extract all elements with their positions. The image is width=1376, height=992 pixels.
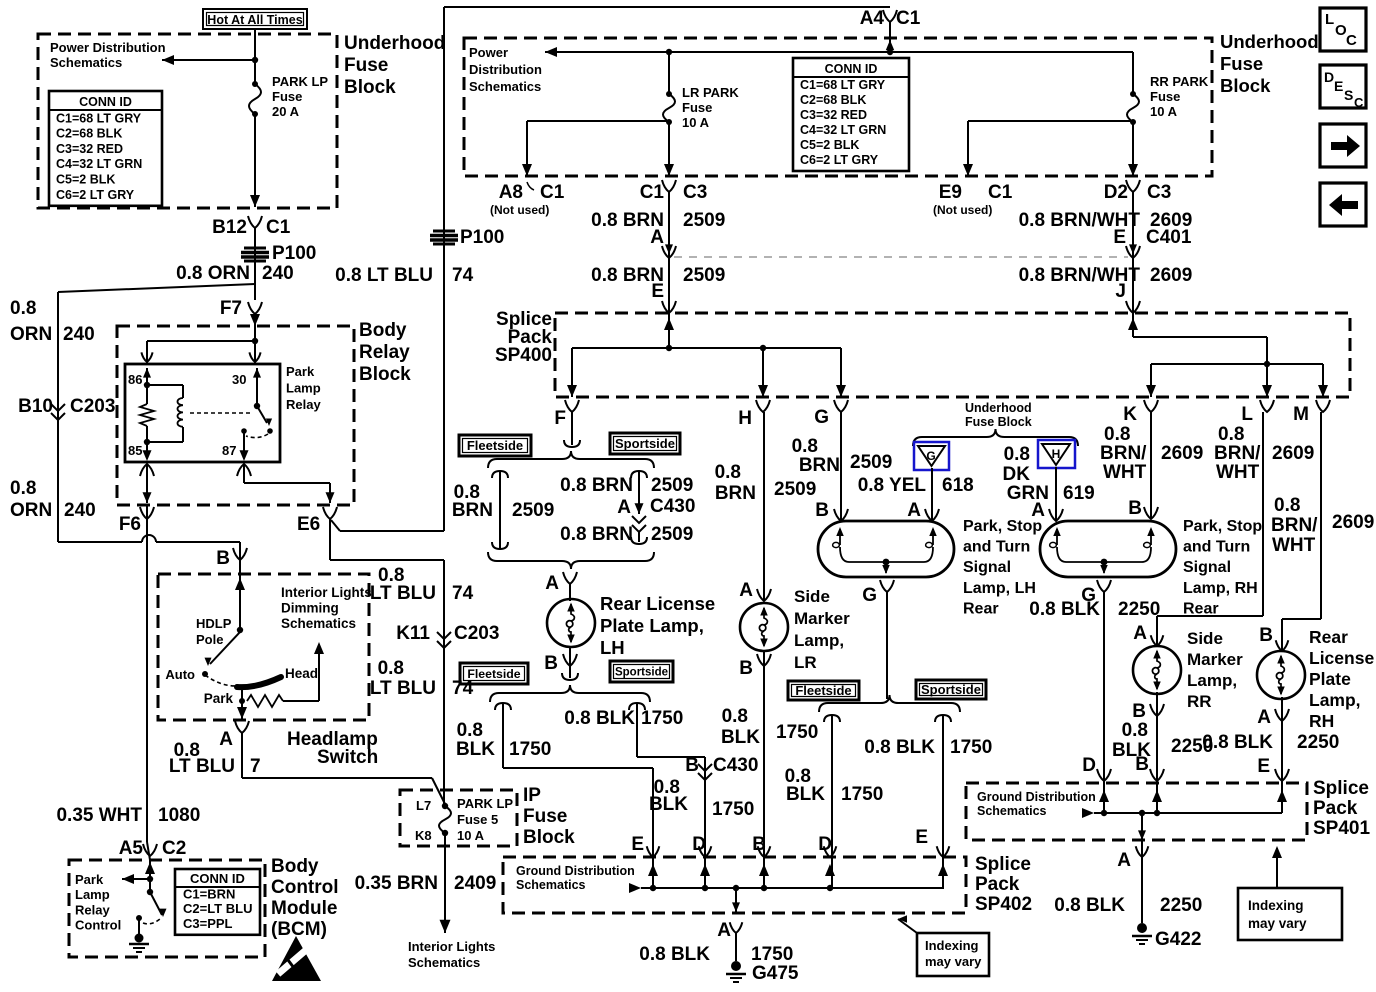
- svg-text:B: B: [685, 755, 699, 776]
- svg-text:DK: DK: [1003, 464, 1031, 485]
- svg-text:G422: G422: [1155, 929, 1201, 950]
- svg-text:86: 86: [128, 372, 142, 387]
- svg-text:J: J: [1115, 281, 1126, 302]
- svg-text:0.8: 0.8: [1274, 495, 1300, 516]
- svg-text:D: D: [1324, 69, 1334, 85]
- svg-text:SP402: SP402: [975, 894, 1032, 915]
- svg-text:ORN: ORN: [10, 324, 52, 345]
- svg-text:BRN/: BRN/: [1271, 515, 1318, 536]
- svg-text:B: B: [1135, 754, 1149, 775]
- svg-text:GRN: GRN: [1007, 483, 1049, 504]
- svg-text:CONN ID: CONN ID: [79, 95, 132, 109]
- svg-text:HDLP: HDLP: [196, 616, 232, 631]
- svg-text:Body: Body: [271, 856, 319, 877]
- svg-text:C1: C1: [266, 217, 291, 238]
- svg-text:Sportside: Sportside: [615, 667, 668, 679]
- svg-text:F6: F6: [119, 514, 141, 535]
- svg-text:E: E: [1334, 78, 1343, 94]
- svg-text:and Turn: and Turn: [1183, 539, 1250, 556]
- svg-text:619: 619: [1063, 483, 1095, 504]
- svg-text:Fuse: Fuse: [344, 55, 388, 76]
- svg-text:0.8: 0.8: [1004, 444, 1030, 465]
- svg-text:L7: L7: [416, 798, 431, 813]
- svg-text:Plate Lamp,: Plate Lamp,: [600, 615, 704, 636]
- svg-text:Rear: Rear: [963, 600, 999, 617]
- svg-text:G475: G475: [752, 963, 799, 984]
- svg-text:Fuse: Fuse: [1150, 89, 1180, 104]
- svg-text:2509: 2509: [651, 524, 693, 545]
- svg-text:Lamp, LH: Lamp, LH: [963, 580, 1036, 597]
- svg-text:C3=PPL: C3=PPL: [183, 916, 233, 931]
- svg-text:0.8 BLK: 0.8 BLK: [1202, 732, 1273, 753]
- svg-text:Fuse: Fuse: [272, 89, 302, 104]
- svg-text:Power: Power: [469, 45, 508, 60]
- svg-text:BRN: BRN: [799, 455, 840, 476]
- svg-text:IP: IP: [523, 785, 541, 806]
- svg-text:Park, Stop: Park, Stop: [1183, 518, 1262, 535]
- svg-text:Plate: Plate: [1309, 669, 1351, 689]
- svg-text:0.8: 0.8: [1104, 424, 1130, 445]
- svg-text:Splice: Splice: [975, 854, 1031, 875]
- svg-text:C430: C430: [713, 755, 758, 776]
- svg-text:A: A: [1257, 707, 1271, 728]
- svg-text:Lamp: Lamp: [286, 381, 321, 396]
- svg-text:0.8: 0.8: [715, 462, 741, 483]
- svg-text:SP400: SP400: [495, 345, 552, 366]
- svg-text:0.8: 0.8: [10, 478, 36, 499]
- svg-text:Sportside: Sportside: [615, 436, 675, 451]
- svg-text:Block: Block: [359, 364, 411, 385]
- svg-text:H: H: [1052, 447, 1061, 461]
- svg-text:0.8: 0.8: [722, 706, 748, 727]
- svg-text:Rear: Rear: [1183, 600, 1219, 617]
- svg-text:K11: K11: [396, 623, 430, 644]
- svg-text:C6=2 LT GRY: C6=2 LT GRY: [56, 188, 135, 202]
- svg-text:Side: Side: [794, 587, 830, 606]
- svg-text:Ground Distribution: Ground Distribution: [516, 864, 635, 878]
- svg-text:0.8 BRN: 0.8 BRN: [560, 524, 633, 545]
- svg-text:LT BLU: LT BLU: [169, 756, 235, 777]
- svg-text:A: A: [1117, 850, 1131, 871]
- svg-text:Indexing: Indexing: [1248, 898, 1304, 913]
- svg-text:C1=BRN: C1=BRN: [183, 887, 235, 902]
- svg-text:Marker: Marker: [1187, 650, 1243, 669]
- svg-text:B: B: [216, 548, 230, 569]
- svg-text:74: 74: [452, 678, 474, 699]
- svg-text:618: 618: [942, 475, 974, 496]
- svg-text:0.8 BRN: 0.8 BRN: [560, 475, 633, 496]
- svg-text:RR PARK: RR PARK: [1150, 74, 1209, 89]
- svg-text:0.8: 0.8: [792, 436, 818, 457]
- svg-text:C1: C1: [540, 182, 565, 203]
- svg-text:10 A: 10 A: [457, 828, 485, 843]
- svg-text:C: C: [1354, 95, 1364, 110]
- svg-text:C1: C1: [988, 182, 1013, 203]
- svg-text:Fuse Block: Fuse Block: [965, 415, 1032, 429]
- svg-text:C430: C430: [650, 496, 695, 517]
- svg-text:H: H: [738, 408, 752, 429]
- svg-text:2609: 2609: [1272, 443, 1314, 464]
- svg-text:LR PARK: LR PARK: [682, 85, 739, 100]
- svg-text:Fleetside: Fleetside: [467, 667, 520, 681]
- svg-text:0.35 BRN: 0.35 BRN: [355, 873, 438, 894]
- svg-text:10 A: 10 A: [1150, 104, 1178, 119]
- svg-text:2509: 2509: [683, 210, 725, 231]
- svg-text:LT BLU: LT BLU: [370, 678, 436, 699]
- svg-text:K: K: [1123, 404, 1137, 425]
- svg-text:0.8 LT BLU: 0.8 LT BLU: [335, 265, 433, 286]
- svg-text:SP401: SP401: [1313, 818, 1370, 839]
- svg-text:Auto: Auto: [165, 667, 195, 682]
- svg-text:2250: 2250: [1297, 732, 1339, 753]
- svg-text:C6=2 LT GRY: C6=2 LT GRY: [800, 153, 879, 167]
- svg-text:Interior Lights: Interior Lights: [281, 585, 372, 600]
- svg-text:P100: P100: [460, 227, 504, 248]
- svg-text:0.8 BLK: 0.8 BLK: [639, 944, 710, 965]
- svg-text:2609: 2609: [1332, 512, 1374, 533]
- svg-text:Schematics: Schematics: [408, 955, 480, 970]
- svg-text:G: G: [814, 407, 829, 428]
- svg-text:F: F: [554, 408, 566, 429]
- svg-text:L: L: [1325, 11, 1334, 28]
- svg-text:Fuse: Fuse: [682, 100, 712, 115]
- svg-text:0.8 BLK: 0.8 BLK: [1029, 599, 1100, 620]
- svg-text:C1: C1: [640, 182, 665, 203]
- svg-text:2509: 2509: [774, 479, 816, 500]
- svg-text:Hot At All Times: Hot At All Times: [207, 13, 302, 27]
- svg-text:BRN: BRN: [715, 483, 756, 504]
- svg-text:A4: A4: [860, 8, 885, 29]
- svg-text:7: 7: [250, 756, 261, 777]
- svg-text:87: 87: [222, 443, 236, 458]
- svg-text:CONN ID: CONN ID: [825, 62, 878, 76]
- svg-text:Park: Park: [204, 691, 234, 706]
- svg-text:Schematics: Schematics: [516, 878, 586, 892]
- svg-text:Fleetside: Fleetside: [467, 438, 523, 453]
- svg-text:LR: LR: [794, 653, 817, 672]
- svg-text:Pole: Pole: [196, 632, 223, 647]
- svg-text:Sportside: Sportside: [921, 682, 981, 697]
- svg-text:B12: B12: [212, 217, 247, 238]
- svg-text:2250: 2250: [1160, 895, 1202, 916]
- svg-text:C1=68 LT GRY: C1=68 LT GRY: [56, 111, 142, 125]
- svg-text:1080: 1080: [158, 805, 200, 826]
- svg-text:BRN: BRN: [452, 500, 493, 521]
- svg-text:Underhood: Underhood: [1220, 31, 1319, 52]
- svg-text:Head: Head: [285, 666, 318, 681]
- svg-text:C4=32 LT GRN: C4=32 LT GRN: [56, 157, 142, 171]
- svg-text:Block: Block: [523, 827, 575, 848]
- svg-text:Fuse: Fuse: [1220, 53, 1263, 74]
- svg-text:Signal: Signal: [963, 559, 1011, 576]
- svg-text:Rear: Rear: [1309, 627, 1348, 647]
- svg-text:30: 30: [232, 372, 246, 387]
- svg-text:2509: 2509: [651, 475, 693, 496]
- svg-text:may vary: may vary: [925, 954, 982, 969]
- svg-text:B: B: [1259, 625, 1273, 646]
- svg-text:Side: Side: [1187, 629, 1223, 648]
- svg-text:C1: C1: [896, 8, 921, 29]
- svg-text:Lamp,: Lamp,: [1187, 671, 1237, 690]
- svg-text:Control: Control: [271, 877, 339, 898]
- svg-text:Signal: Signal: [1183, 559, 1231, 576]
- svg-text:A: A: [717, 920, 731, 941]
- svg-text:P100: P100: [272, 243, 316, 264]
- svg-text:C401: C401: [1146, 227, 1192, 248]
- svg-text:Block: Block: [344, 77, 396, 98]
- svg-text:Block: Block: [1220, 75, 1271, 96]
- svg-text:M: M: [1293, 404, 1309, 425]
- svg-text:F7: F7: [220, 298, 242, 319]
- svg-text:Module: Module: [271, 898, 338, 919]
- svg-text:E6: E6: [297, 514, 320, 535]
- svg-text:Relay: Relay: [359, 342, 410, 363]
- svg-text:LT BLU: LT BLU: [370, 583, 436, 604]
- svg-text:74: 74: [452, 583, 474, 604]
- svg-text:0.8 BLK: 0.8 BLK: [864, 737, 935, 758]
- svg-text:C3: C3: [683, 182, 707, 203]
- svg-text:0.8 ORN: 0.8 ORN: [176, 263, 250, 284]
- svg-text:C2=68 BLK: C2=68 BLK: [56, 127, 122, 141]
- svg-text:85: 85: [128, 443, 142, 458]
- svg-text:Pack: Pack: [975, 874, 1020, 895]
- svg-text:Lamp,: Lamp,: [1309, 690, 1361, 710]
- svg-text:B: B: [1128, 498, 1142, 519]
- svg-text:Fleetside: Fleetside: [795, 683, 851, 698]
- svg-text:C: C: [1346, 32, 1357, 49]
- svg-text:B10: B10: [18, 396, 53, 417]
- svg-text:C3=32 RED: C3=32 RED: [56, 142, 123, 156]
- svg-text:WHT: WHT: [1216, 462, 1260, 483]
- svg-text:Marker: Marker: [794, 609, 850, 628]
- svg-text:0.8: 0.8: [10, 298, 36, 319]
- svg-text:A5: A5: [119, 838, 144, 859]
- svg-text:Power Distribution: Power Distribution: [50, 40, 166, 55]
- svg-text:may vary: may vary: [1248, 916, 1307, 931]
- svg-text:B: B: [739, 658, 753, 679]
- svg-text:Schematics: Schematics: [281, 616, 356, 631]
- svg-text:E: E: [631, 834, 644, 855]
- svg-text:0.35 WHT: 0.35 WHT: [56, 805, 142, 826]
- svg-text:1750: 1750: [641, 708, 683, 729]
- svg-text:Park: Park: [286, 364, 315, 379]
- svg-text:C203: C203: [70, 396, 115, 417]
- svg-text:K8: K8: [415, 828, 432, 843]
- svg-text:A: A: [907, 500, 921, 521]
- svg-text:BLK: BLK: [456, 739, 495, 760]
- svg-text:PARK LP: PARK LP: [457, 796, 513, 811]
- svg-text:G: G: [926, 449, 935, 463]
- svg-text:Underhood: Underhood: [965, 401, 1032, 415]
- svg-text:G: G: [862, 585, 877, 606]
- svg-text:0.8: 0.8: [1218, 424, 1244, 445]
- svg-text:1750: 1750: [950, 737, 992, 758]
- svg-text:C2=68 BLK: C2=68 BLK: [800, 93, 866, 107]
- svg-text:PARK LP: PARK LP: [272, 74, 328, 89]
- svg-text:RR: RR: [1187, 692, 1212, 711]
- svg-text:ORN: ORN: [10, 500, 52, 521]
- svg-text:Indexing: Indexing: [925, 938, 979, 953]
- svg-text:Lamp: Lamp: [75, 887, 110, 902]
- svg-text:Body: Body: [359, 320, 407, 341]
- svg-text:A: A: [545, 573, 559, 594]
- svg-text:Relay: Relay: [75, 902, 110, 917]
- svg-text:WHT: WHT: [1272, 535, 1316, 556]
- svg-text:C1=68 LT GRY: C1=68 LT GRY: [800, 78, 886, 92]
- svg-text:D2: D2: [1104, 182, 1128, 203]
- svg-text:Schematics: Schematics: [50, 55, 122, 70]
- svg-text:1750: 1750: [776, 722, 818, 743]
- svg-text:A: A: [617, 497, 631, 518]
- svg-text:BRN/: BRN/: [1214, 443, 1261, 464]
- svg-text:A: A: [1133, 623, 1147, 644]
- svg-text:C2: C2: [162, 838, 186, 859]
- svg-text:L: L: [1241, 404, 1253, 425]
- svg-text:20 A: 20 A: [272, 104, 300, 119]
- svg-text:C4=32 LT GRN: C4=32 LT GRN: [800, 123, 886, 137]
- svg-text:A: A: [219, 729, 233, 750]
- svg-text:A: A: [739, 580, 753, 601]
- svg-text:74: 74: [452, 265, 474, 286]
- svg-text:Fuse 5: Fuse 5: [457, 812, 498, 827]
- svg-text:Control: Control: [75, 918, 121, 933]
- svg-text:2509: 2509: [512, 500, 554, 521]
- svg-text:0.8 BLK: 0.8 BLK: [1054, 895, 1125, 916]
- svg-text:1750: 1750: [712, 799, 754, 820]
- svg-text:B: B: [544, 653, 558, 674]
- svg-text:2509: 2509: [683, 265, 725, 286]
- svg-text:Switch: Switch: [317, 747, 378, 768]
- svg-text:0.8: 0.8: [1122, 720, 1148, 741]
- svg-text:B: B: [1132, 701, 1146, 722]
- svg-text:E: E: [915, 827, 928, 848]
- svg-text:E: E: [1113, 227, 1126, 248]
- svg-text:(Not used): (Not used): [933, 203, 992, 217]
- svg-text:D: D: [1082, 755, 1096, 776]
- svg-text:Lamp, RH: Lamp, RH: [1183, 580, 1258, 597]
- svg-text:BLK: BLK: [721, 727, 760, 748]
- svg-text:Dimming: Dimming: [281, 601, 339, 616]
- svg-text:E9: E9: [939, 182, 962, 203]
- svg-text:A: A: [650, 227, 664, 248]
- svg-text:Lamp,: Lamp,: [794, 631, 844, 650]
- svg-text:BLK: BLK: [649, 794, 688, 815]
- svg-text:C203: C203: [454, 623, 499, 644]
- svg-text:B: B: [815, 500, 829, 521]
- svg-text:10 A: 10 A: [682, 115, 710, 130]
- svg-text:Ground Distribution: Ground Distribution: [977, 790, 1096, 804]
- svg-text:1750: 1750: [751, 944, 793, 965]
- svg-text:Park: Park: [75, 872, 104, 887]
- svg-text:D: D: [818, 834, 832, 855]
- svg-text:C3=32 RED: C3=32 RED: [800, 108, 867, 122]
- svg-text:S: S: [1344, 87, 1353, 103]
- svg-text:Interior Lights: Interior Lights: [408, 939, 495, 954]
- svg-text:(Not used): (Not used): [490, 203, 549, 217]
- svg-text:2609: 2609: [1150, 265, 1192, 286]
- svg-text:Schematics: Schematics: [469, 79, 541, 94]
- svg-text:1750: 1750: [841, 784, 883, 805]
- svg-text:2609: 2609: [1161, 443, 1203, 464]
- svg-text:2509: 2509: [850, 452, 892, 473]
- svg-text:(BCM): (BCM): [271, 919, 327, 940]
- svg-text:RH: RH: [1309, 711, 1334, 731]
- svg-text:Distribution: Distribution: [469, 62, 542, 77]
- svg-text:Splice: Splice: [1313, 778, 1369, 799]
- svg-text:0.8: 0.8: [378, 658, 404, 679]
- svg-text:0.8: 0.8: [457, 720, 483, 741]
- svg-text:BLK: BLK: [786, 784, 825, 805]
- svg-text:Park, Stop: Park, Stop: [963, 518, 1042, 535]
- svg-text:C3: C3: [1147, 182, 1171, 203]
- svg-text:WHT: WHT: [1103, 462, 1147, 483]
- svg-text:C5=2 BLK: C5=2 BLK: [56, 173, 115, 187]
- svg-text:2250: 2250: [1118, 599, 1160, 620]
- svg-text:E: E: [1257, 756, 1270, 777]
- svg-text:Pack: Pack: [1313, 798, 1358, 819]
- svg-text:A8: A8: [499, 182, 523, 203]
- svg-text:240: 240: [64, 500, 96, 521]
- svg-text:C5=2 BLK: C5=2 BLK: [800, 138, 859, 152]
- svg-text:C2=LT BLU: C2=LT BLU: [183, 901, 252, 916]
- svg-text:BRN/: BRN/: [1100, 443, 1147, 464]
- svg-text:0.8 YEL: 0.8 YEL: [858, 475, 927, 496]
- svg-text:2409: 2409: [454, 873, 496, 894]
- svg-text:Rear License: Rear License: [600, 593, 715, 614]
- svg-text:E: E: [651, 281, 664, 302]
- svg-text:1750: 1750: [509, 739, 551, 760]
- svg-text:D: D: [692, 834, 706, 855]
- svg-text:License: License: [1309, 648, 1374, 668]
- svg-text:Relay: Relay: [286, 397, 321, 412]
- svg-text:240: 240: [262, 263, 294, 284]
- svg-text:Schematics: Schematics: [977, 804, 1047, 818]
- svg-text:0.8 BLK: 0.8 BLK: [564, 708, 635, 729]
- svg-text:Fuse: Fuse: [523, 806, 567, 827]
- svg-text:LH: LH: [600, 637, 625, 658]
- svg-text:Underhood: Underhood: [344, 33, 445, 54]
- svg-text:and Turn: and Turn: [963, 539, 1030, 556]
- svg-text:CONN ID: CONN ID: [190, 871, 245, 886]
- svg-text:240: 240: [63, 324, 95, 345]
- svg-text:B: B: [752, 834, 766, 855]
